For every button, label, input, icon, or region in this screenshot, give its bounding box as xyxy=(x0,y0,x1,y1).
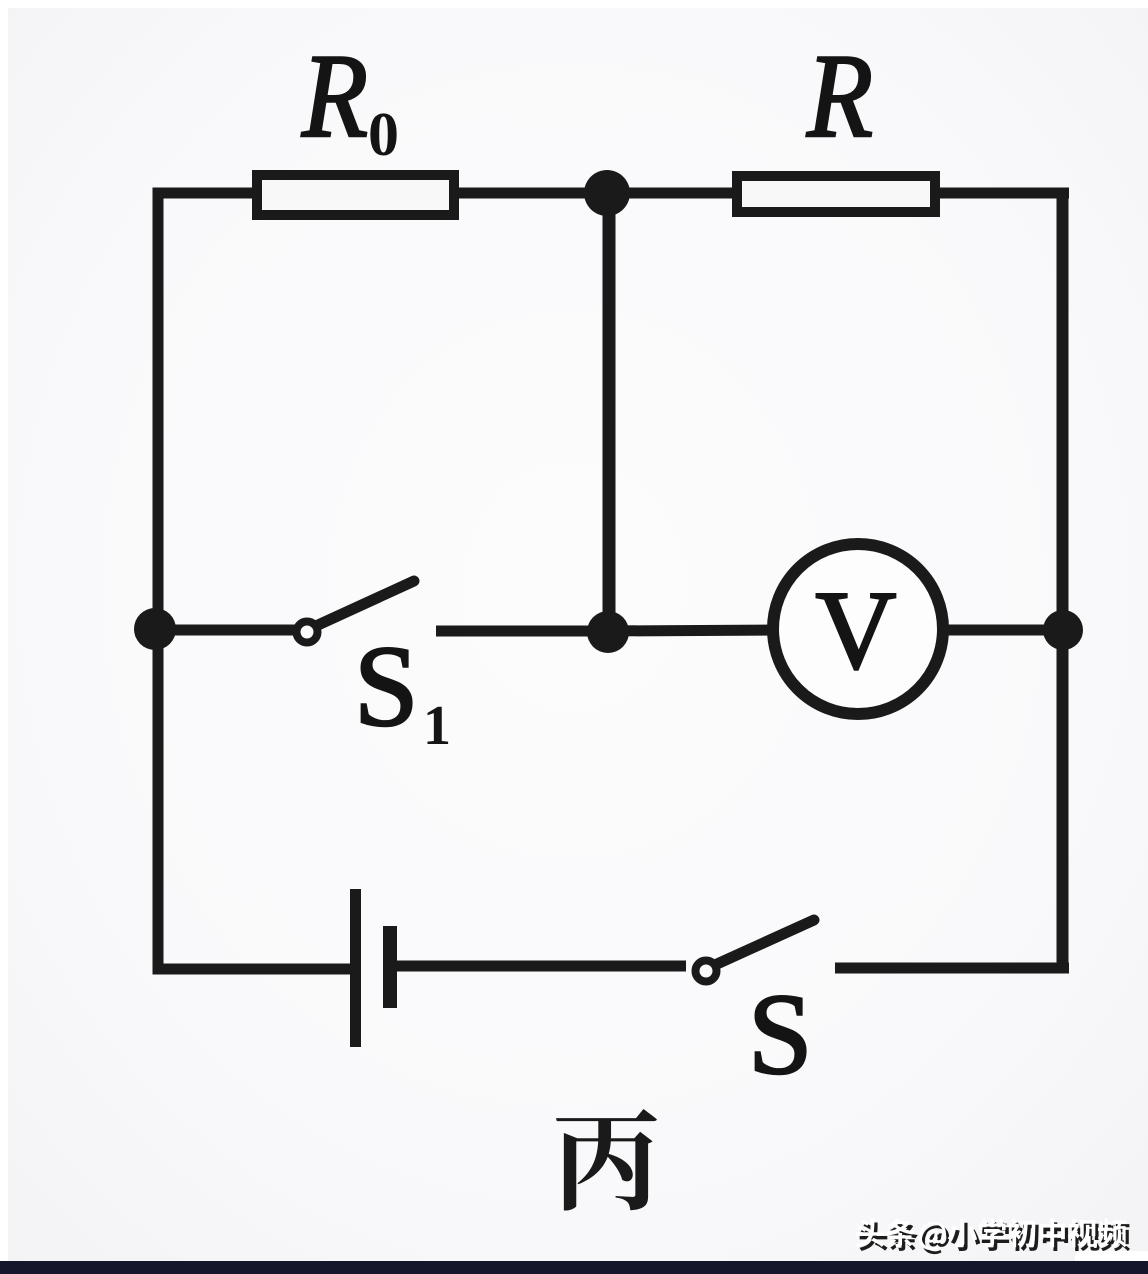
battery cell: long plate (+) xyxy=(350,889,361,1047)
wire: bottom-left horizontal (left rail to battery) xyxy=(153,964,352,975)
resistor R0 xyxy=(257,175,454,215)
node B (middle junction) xyxy=(587,611,629,653)
battery cell: short plate (-) xyxy=(383,926,397,1008)
voltmeter V xyxy=(773,544,943,714)
wire: middle vertical (node A to node B) xyxy=(603,188,616,637)
wire: switch S1 to node B xyxy=(436,626,613,637)
svg-text:0: 0 xyxy=(368,101,399,169)
watermark shadow 头条 @小学初中视频 xyxy=(859,1222,1130,1254)
svg-text:V: V xyxy=(816,569,897,693)
wire: R to right rail xyxy=(935,188,1069,199)
svg-text:R: R xyxy=(806,29,873,162)
wire: left rail to switch S1 xyxy=(153,625,296,636)
svg-text:R: R xyxy=(301,29,368,162)
svg-text:S: S xyxy=(354,623,419,751)
wire: top-left horizontal (left rail to R0) xyxy=(153,188,257,199)
caption 丙 (figure label) xyxy=(556,1109,657,1211)
wire: node A to R xyxy=(602,188,737,199)
node A (top junction) xyxy=(584,170,630,216)
watermark text 头条 @小学初中视频 xyxy=(856,1218,1127,1250)
white footer patch xyxy=(1075,1251,1148,1263)
wire: switch S to bottom-right corner xyxy=(835,963,1069,974)
wire: R0 to node A xyxy=(455,188,612,199)
node D (left junction) xyxy=(134,608,176,650)
wire: left vertical rail xyxy=(153,188,164,975)
wire: node B to voltmeter xyxy=(603,630,778,631)
wire: battery to switch S xyxy=(395,961,686,972)
svg-text:S: S xyxy=(748,971,813,1099)
resistor R xyxy=(737,176,935,212)
switch S1 xyxy=(297,581,415,643)
bottom navy bar xyxy=(0,1261,1148,1274)
svg-text:1: 1 xyxy=(423,695,451,757)
node C (right junction) xyxy=(1043,610,1083,650)
switch S xyxy=(696,920,815,982)
wire: right vertical rail xyxy=(1057,188,1069,974)
wire: voltmeter to node C xyxy=(940,625,1069,636)
